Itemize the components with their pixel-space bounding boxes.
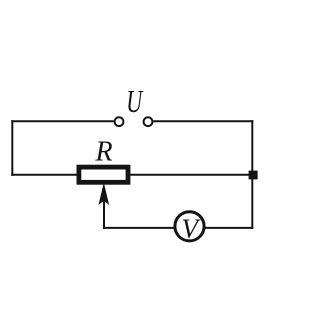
svg-text:U: U xyxy=(126,84,144,119)
svg-text:R: R xyxy=(95,137,113,168)
